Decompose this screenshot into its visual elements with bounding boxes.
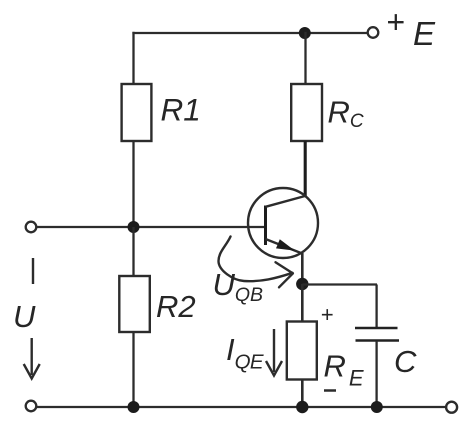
resistor RE [287, 322, 317, 380]
curved arrow UQB [219, 237, 293, 282]
wire right column top (rail to RC) [304, 32, 306, 85]
transistor Q1 circle [248, 188, 318, 258]
resistor RC [291, 84, 322, 141]
arrowhead U [24, 364, 40, 379]
wire capacitor top lead [375, 285, 377, 328]
terminal input open circle [26, 222, 37, 233]
capacitor C bottom plate [356, 339, 400, 342]
svg-text:U: U [13, 299, 36, 334]
arrow IQE current [273, 329, 275, 372]
svg-text:RC: RC [328, 95, 364, 132]
wire RE to bottom rail [301, 380, 304, 408]
svg-text:R1: R1 [161, 92, 201, 128]
resistor R2 [119, 276, 150, 332]
svg-text:IQE: IQE [226, 332, 264, 374]
wire emitter node to RE [301, 284, 304, 322]
wire capacitor bottom lead [375, 341, 377, 407]
transistor Q1 collector lead [266, 196, 306, 207]
svg-text:E: E [413, 15, 436, 52]
node bottom rail RE junction [296, 401, 308, 413]
wire emitter to node [301, 253, 304, 284]
svg-text:R2: R2 [156, 289, 196, 324]
capacitor C top plate [355, 327, 398, 330]
wire base node to R2 [132, 227, 134, 276]
node emitter junction [296, 278, 308, 290]
resistor R1 [122, 84, 152, 141]
svg-text:+: + [321, 302, 334, 327]
node bottom rail C junction [371, 401, 383, 413]
wire left column top (rail to R1) [132, 32, 134, 85]
terminal +E open circle [368, 27, 379, 38]
svg-text:+: + [386, 4, 405, 40]
svg-text:C: C [394, 344, 417, 379]
transistor Q1 emitter arrow [276, 239, 295, 250]
svg-text:UQB: UQB [213, 267, 264, 306]
arrowhead UQB [276, 262, 293, 287]
node bottom rail R2 junction [128, 401, 140, 413]
node base junction [128, 221, 140, 233]
arrow U direction [31, 338, 33, 375]
wire RC to collector [304, 141, 307, 197]
node top junction [299, 27, 311, 39]
label - (RE bottom polarity) [324, 389, 336, 392]
wire R2 to bottom rail [132, 332, 134, 407]
transistor Q1 base bar [264, 206, 267, 246]
wire top rail [132, 32, 367, 34]
terminal bottom-left open circle [26, 401, 37, 412]
transistor Q1 emitter lead [266, 239, 303, 254]
wire R1 to base node [132, 141, 134, 227]
wire bottom rail [37, 406, 446, 408]
arrowhead IQE [266, 361, 282, 376]
wire emitter node to capacitor [302, 283, 377, 285]
wire base (input to transistor base) [37, 226, 267, 228]
svg-text:RE: RE [324, 349, 364, 391]
terminal bottom-right open circle [446, 402, 457, 413]
U reference bar [32, 258, 34, 284]
